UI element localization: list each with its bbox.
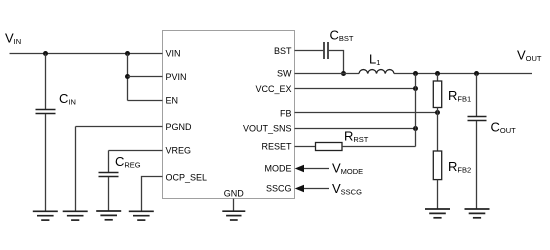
- VOUT label: [517, 48, 542, 64]
- label CBST: [330, 28, 354, 44]
- wire MODE input: [303, 168, 329, 170]
- wire COUT upper: [476, 74, 478, 117]
- pin MODE label: [265, 164, 292, 174]
- IC U1: [163, 31, 295, 199]
- label RFB2: [448, 159, 471, 175]
- ground COUT: [465, 209, 490, 218]
- resistor RRST: [316, 143, 343, 151]
- wire VREG: [109, 151, 163, 173]
- wire COUT lower: [476, 121, 478, 209]
- wire RFB1 top: [437, 74, 439, 82]
- arrow SSCG: [295, 185, 304, 193]
- svg-text:VCC_EX: VCC_EX: [255, 84, 291, 94]
- pin BST label: [274, 46, 292, 56]
- wire GND pin: [233, 199, 235, 211]
- svg-text:FB: FB: [280, 108, 292, 118]
- inductor L1: [359, 70, 394, 74]
- ground CIN: [33, 211, 58, 220]
- svg-text:EN: EN: [166, 95, 179, 105]
- wire RFB2 bottom: [437, 180, 439, 210]
- wire PVIN: [128, 76, 163, 78]
- wire RESET right: [342, 146, 416, 148]
- label CIN: [59, 91, 76, 107]
- ground PGND: [63, 211, 88, 220]
- wire FB: [295, 112, 438, 114]
- wire CREG lower: [108, 177, 110, 211]
- resistor RFB1: [433, 81, 441, 108]
- pin SW label: [277, 69, 292, 79]
- node RFB1 top: [435, 71, 440, 76]
- label RRST: [344, 128, 369, 144]
- capacitor COUT: [468, 117, 487, 121]
- pin EN label: [166, 95, 179, 105]
- wire VOUT rail: [394, 73, 532, 75]
- wire RESET left: [295, 146, 316, 148]
- wire SSCG input: [303, 188, 329, 190]
- svg-text:BST: BST: [274, 46, 292, 56]
- node PVIN tap: [125, 51, 130, 56]
- pin FB label: [280, 108, 292, 118]
- svg-text:VOUT_SNS: VOUT_SNS: [243, 124, 292, 134]
- ground CREG: [96, 211, 121, 220]
- pin VREG label: [166, 145, 192, 155]
- pin PVIN label: [166, 72, 187, 82]
- VIN source label: [5, 31, 21, 47]
- pin GND label: [224, 189, 245, 199]
- pin RESET label: [261, 142, 292, 152]
- label CREG: [115, 154, 141, 170]
- pin OCP_SEL label: [166, 172, 208, 182]
- wire VCC_EX: [295, 88, 416, 90]
- resistor RFB2: [433, 151, 441, 180]
- svg-text:MODE: MODE: [265, 164, 292, 174]
- wire PVIN/EN vertical: [127, 54, 129, 101]
- svg-text:GND: GND: [224, 189, 245, 199]
- svg-text:OCP_SEL: OCP_SEL: [166, 172, 208, 182]
- pin VCC_EX label: [255, 84, 291, 94]
- capacitor CIN: [36, 110, 56, 114]
- label VSSCG: [332, 181, 362, 197]
- wire VOUT_SNS: [295, 128, 416, 130]
- pin VIN label: [166, 48, 181, 58]
- ground GND: [222, 211, 245, 220]
- wire CIN lower: [45, 114, 47, 211]
- wire feedback rail vertical: [415, 74, 417, 147]
- wire CIN upper: [45, 54, 47, 110]
- label COUT: [491, 120, 517, 136]
- label RFB1: [448, 88, 471, 104]
- node VCC_EX: [413, 86, 418, 91]
- svg-text:VIN: VIN: [166, 48, 181, 58]
- capacitor CBST: [324, 42, 328, 59]
- node BST/SW: [341, 71, 346, 76]
- wire SW: [295, 73, 360, 75]
- capacitor CREG: [99, 173, 119, 177]
- wire BST right: [329, 51, 344, 74]
- wire VIN input: [10, 53, 163, 55]
- label VMODE: [332, 161, 363, 177]
- node rail tap: [413, 71, 418, 76]
- ground OCP_SEL: [129, 211, 154, 220]
- pin PGND label: [166, 122, 193, 132]
- pin SSCG label: [266, 184, 292, 194]
- arrow MODE: [295, 165, 304, 173]
- pin VOUT_SNS label: [243, 124, 292, 134]
- node VOUT_SNS: [413, 126, 418, 131]
- node PVIN junction: [125, 74, 130, 79]
- wire OCP_SEL: [142, 177, 163, 212]
- svg-text:PGND: PGND: [166, 122, 193, 132]
- node CIN tap: [43, 51, 48, 56]
- svg-text:PVIN: PVIN: [166, 72, 187, 82]
- wire EN: [128, 100, 163, 102]
- wire RFB1 bottom: [437, 108, 439, 152]
- wire PGND: [76, 127, 163, 212]
- wire BST left: [295, 50, 324, 52]
- label L1: [369, 52, 380, 68]
- svg-text:RESET: RESET: [261, 142, 292, 152]
- svg-text:SW: SW: [277, 69, 292, 79]
- svg-text:VREG: VREG: [166, 145, 192, 155]
- node COUT top: [474, 71, 479, 76]
- svg-text:SSCG: SSCG: [266, 184, 292, 194]
- ground RFB2: [425, 209, 450, 218]
- node FB divider: [435, 110, 440, 115]
